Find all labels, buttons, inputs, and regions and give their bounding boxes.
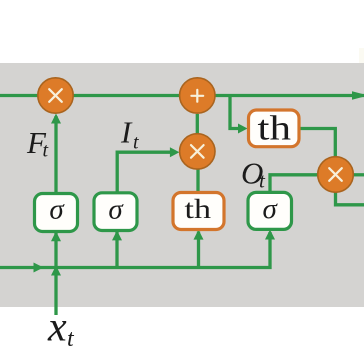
svg-text:th: th xyxy=(185,194,212,224)
svg-text:σ: σ xyxy=(49,194,65,226)
svg-text:σ: σ xyxy=(263,193,279,225)
svg-text:th: th xyxy=(258,109,292,148)
svg-text:t: t xyxy=(43,140,49,162)
svg-text:σ: σ xyxy=(108,193,124,225)
svg-text:t: t xyxy=(133,132,139,154)
svg-text:I: I xyxy=(120,115,133,150)
svg-text:x: x xyxy=(47,305,67,351)
